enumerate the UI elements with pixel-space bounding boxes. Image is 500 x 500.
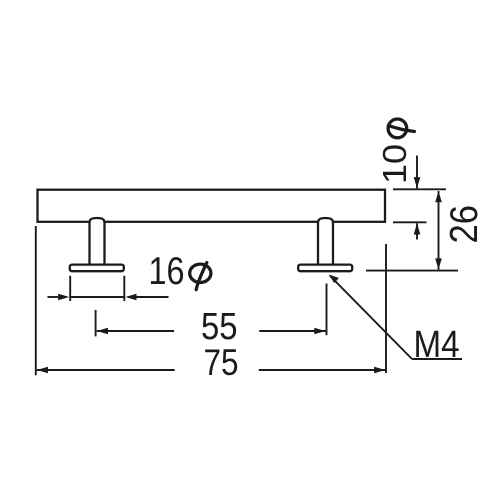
leader line M4 horizontal underline (412, 358, 462, 360)
svg-text:M4: M4 (414, 324, 460, 366)
extension line 75 left (35, 226, 37, 375)
handle bar body (38, 190, 386, 222)
dimension line 16phi middle segment (70, 296, 124, 298)
arrowhead 10phi upper (pointing down) (414, 177, 421, 188)
arrowhead 10phi lower (pointing up) (414, 223, 421, 234)
svg-text:26: 26 (443, 205, 486, 244)
dimension line 26 (438, 191, 440, 270)
dimension 10phi lower arrow line (416, 223, 418, 239)
left post flange (70, 265, 124, 272)
left post stem (90, 218, 105, 265)
extension line 75 right (385, 244, 387, 373)
arrowhead 55 left (97, 328, 108, 335)
extension line 26 bottom (flange underside level) (366, 270, 458, 272)
right post flange (298, 265, 352, 272)
arrowhead 26 top (pointing up) (435, 191, 442, 202)
svg-text:75: 75 (204, 341, 239, 383)
right post stem (318, 218, 333, 265)
label phi of 16phi (drawn glyph) (190, 263, 211, 290)
arrowhead 75 right (374, 367, 385, 374)
dimension 10phi upper arrow line (416, 156, 418, 189)
dimension line 55 right segment (259, 330, 325, 332)
label phi of 10phi (drawn glyph, rotated orientation) (388, 119, 414, 138)
arrowhead 75 left (37, 367, 48, 374)
arrowhead 26 bottom (pointing down) (435, 258, 442, 269)
extension line 55 right (326, 284, 328, 336)
extension line 55 left (95, 310, 97, 336)
dimension line 16phi right tail (137, 296, 169, 298)
arrowhead M4 leader (pointing up-left at flange) (329, 275, 339, 284)
extension line 16phi right (123, 276, 125, 301)
svg-text:16: 16 (149, 250, 185, 293)
extension line 10phi bottom (bar bottom level) (393, 221, 427, 223)
extension line 16phi left (69, 276, 71, 301)
dimension line 75 left segment (37, 369, 175, 371)
arrowhead 16phi left (outside, pointing right) (58, 294, 69, 301)
dimension line 75 right segment (259, 369, 385, 371)
svg-text:10: 10 (377, 144, 414, 184)
dimension line 55 left segment (97, 330, 174, 332)
leader line M4 diagonal (330, 276, 412, 359)
arrowhead 55 right (314, 328, 325, 335)
arrowhead 16phi right (outside, pointing left) (125, 294, 136, 301)
extension line 10phi top (bar top level) (393, 188, 446, 190)
dimension line 16phi left tail (48, 296, 59, 298)
